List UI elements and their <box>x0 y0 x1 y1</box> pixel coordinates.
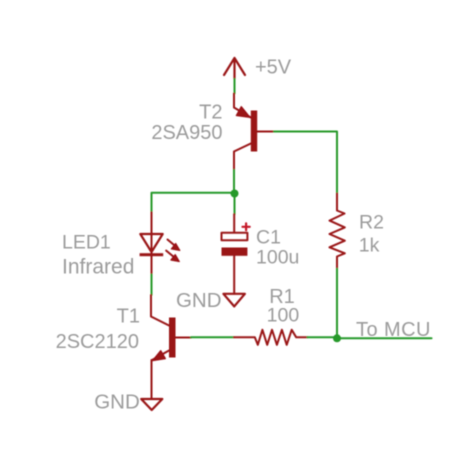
svg-text:To MCU: To MCU <box>356 319 431 341</box>
ground symbol below T1 <box>141 399 162 410</box>
svg-text:100u: 100u <box>256 247 299 269</box>
capacitor C1 100u polarized <box>222 214 248 294</box>
svg-text:C1: C1 <box>256 227 281 249</box>
svg-text:Infrared: Infrared <box>62 256 134 279</box>
supply +5V symbol <box>224 58 245 79</box>
transistor T2 (PNP 2SA950) <box>234 94 274 171</box>
ground symbol below C1 <box>223 294 245 307</box>
wire net T2 base to R2 top <box>274 132 337 194</box>
transistor T1 (NPN 2SC2120) <box>151 295 191 399</box>
svg-text:T1: T1 <box>117 306 140 328</box>
resistor R1 100 <box>234 330 308 345</box>
LED1 emission arrow 2 <box>166 251 179 262</box>
junction node output To MCU <box>333 334 341 342</box>
wire net junction to LED anode <box>152 193 235 213</box>
wire net junction to C1 top <box>234 194 236 215</box>
svg-text:GND: GND <box>94 391 140 414</box>
svg-text:2SC2120: 2SC2120 <box>56 331 139 353</box>
wire net To MCU <box>337 337 432 339</box>
svg-text:LED1: LED1 <box>62 232 111 254</box>
wire net from +5V to T2 emitter <box>234 79 236 94</box>
svg-text:2SA950: 2SA950 <box>151 122 222 144</box>
resistor R2 1k <box>330 194 345 269</box>
wire net LED cathode to T1 collector <box>151 275 153 296</box>
LED1 emission arrow 1 <box>168 240 180 251</box>
C1 plus polarity mark <box>243 223 250 230</box>
wire net R2 bottom to output junction <box>336 269 338 339</box>
svg-text:T2: T2 <box>199 102 222 124</box>
junction node at T2 collector / C1 / LED net <box>231 190 239 198</box>
svg-text:+5V: +5V <box>255 57 292 79</box>
wire net T1 base to R1 left <box>191 336 234 338</box>
wire net R1 right to output junction <box>308 336 338 338</box>
LED LED1 infrared <box>140 212 164 274</box>
svg-text:R2: R2 <box>359 212 384 234</box>
svg-text:GND: GND <box>176 289 222 312</box>
svg-text:100: 100 <box>267 305 300 327</box>
wire net T2 collector to junction <box>233 170 235 194</box>
svg-text:1k: 1k <box>359 235 380 257</box>
